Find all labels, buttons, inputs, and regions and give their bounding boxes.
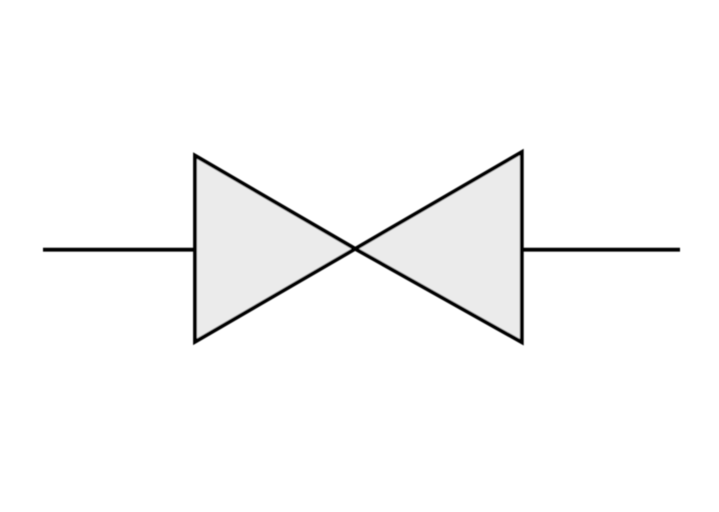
valve V1 (left triangle of bowtie body) [195, 156, 355, 342]
wire (left lead) [43, 248, 196, 252]
wire (right lead) [521, 248, 680, 252]
valve V1 (right triangle of bowtie body) [355, 152, 522, 342]
